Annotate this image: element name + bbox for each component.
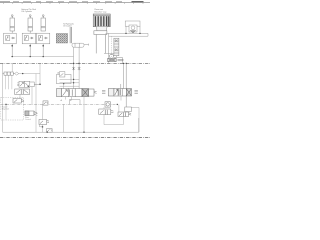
svg-text:Breather Cap: Breather Cap	[95, 10, 108, 13]
check valve CV1	[15, 72, 19, 75]
accumulator capsule	[72, 43, 89, 47]
manifold stippled block	[56, 34, 67, 44]
relief valve RV4	[99, 109, 114, 115]
check valve CV3	[47, 129, 53, 133]
wire SV2 feed pair	[121, 63, 126, 112]
node J6	[43, 56, 44, 57]
wire lower-left links	[36, 104, 43, 132]
valve DV3	[25, 111, 37, 116]
node J18	[83, 131, 85, 133]
wire left main drop	[2, 63, 4, 132]
node J13	[5, 104, 7, 106]
label oil cooler	[63, 23, 74, 27]
label DV3	[25, 117, 31, 121]
wire reservoir left wall	[108, 33, 110, 62]
valve V1 holding block	[4, 31, 17, 57]
wire lower right loops	[104, 104, 139, 132]
wire mid-left row	[12, 63, 40, 132]
node J8	[78, 63, 80, 65]
mounting flange	[94, 31, 107, 35]
label power beyond	[2, 106, 9, 110]
coupling QD1	[72, 67, 75, 70]
wire top ruler line	[0, 2, 150, 4]
wire pressure line right	[106, 26, 149, 36]
filter breather striped block	[93, 14, 110, 27]
relief loop center	[57, 72, 72, 84]
svg-text:Control: Control	[25, 118, 31, 121]
enclosure dashed reservoir	[111, 36, 113, 61]
relief valve RV1 loop	[125, 21, 140, 33]
wire suction pipe	[96, 35, 105, 54]
node J15	[63, 83, 64, 84]
cylinder CYL2	[28, 15, 32, 31]
node title strip text smudge	[0, 1, 144, 2]
node J12	[39, 84, 41, 86]
wire DV2 drop	[19, 95, 21, 99]
svg-text:Oil Cooler: Oil Cooler	[63, 26, 72, 28]
wire pb drop	[5, 104, 7, 119]
relief valve RV2	[13, 99, 24, 104]
valve bank of three small squares	[3, 72, 15, 75]
valve main spool SV1	[57, 89, 97, 97]
wire loop to SV1	[63, 84, 65, 89]
relief valve RV6	[39, 120, 49, 127]
node J2	[29, 45, 31, 47]
node J21	[123, 63, 124, 64]
node J10	[139, 33, 140, 34]
node J14	[42, 126, 44, 128]
coupling QD2	[78, 67, 81, 70]
cylinder CYL1	[10, 15, 14, 31]
node J7	[73, 63, 75, 65]
node J20	[46, 131, 48, 133]
wire return bus	[11, 55, 73, 57]
check valve CV4	[43, 101, 48, 105]
wire cooler drop pair	[70, 27, 71, 43]
wire chain boundary mid	[0, 62, 150, 64]
node J3	[42, 45, 44, 47]
node J9	[125, 33, 126, 34]
wire drop bundle	[5, 75, 11, 89]
label optional lift cylinder	[21, 8, 36, 13]
node J4	[12, 56, 13, 57]
label breather cap	[95, 9, 108, 13]
gauge G1	[105, 102, 111, 107]
valve DV1	[17, 81, 40, 87]
node J5	[30, 56, 31, 57]
valve V2 holding block	[22, 31, 35, 57]
wire chain boundary bottom	[0, 137, 150, 139]
filter suction strainer	[114, 38, 119, 56]
valve main spool SV2	[102, 89, 138, 97]
wire bump loop	[69, 100, 80, 105]
block B2	[125, 107, 132, 112]
node J17	[73, 82, 74, 83]
node J19	[117, 104, 118, 105]
svg-text:Lift Cylinder: Lift Cylinder	[22, 10, 33, 13]
node J1	[11, 45, 13, 47]
node J22	[126, 63, 127, 64]
relief valve RV5	[118, 112, 131, 117]
node ruler ticks	[4, 3, 144, 4]
wire tank return line	[3, 131, 139, 133]
pump group	[104, 53, 124, 61]
wire chain aux line	[1, 103, 118, 105]
valve V3 holding block	[36, 33, 49, 56]
wire SV1 drops	[64, 97, 84, 133]
wire strainer outlet	[114, 56, 122, 63]
svg-text:Beyond: Beyond	[2, 109, 9, 111]
wire SV2 drop	[120, 96, 122, 101]
wire gallery lines	[60, 79, 80, 86]
node J16	[73, 79, 74, 80]
enclosure dashed power beyond	[1, 97, 24, 120]
wire tank return corner	[138, 118, 140, 132]
node J11	[22, 73, 23, 74]
valve DV2	[15, 89, 30, 95]
filler neck	[96, 27, 107, 31]
wire capsule drops	[74, 47, 80, 88]
cylinder CYL3	[41, 15, 45, 31]
